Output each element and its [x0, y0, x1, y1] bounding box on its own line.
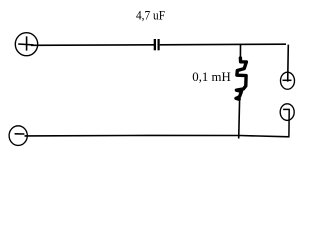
- wire bottom rail: [25, 135, 290, 136]
- input terminal + (top-left): [15, 33, 37, 56]
- capacitor 4,7uF: [154, 39, 160, 50]
- wire bottom-right vertical: [288, 109, 290, 136]
- svg-text:0,1 mH: 0,1 mH: [192, 70, 230, 84]
- inductor 0,1 mH (coil): [236, 58, 246, 99]
- wire inductor branch (from top wire down to coil): [239, 45, 241, 60]
- wire inductor to bottom rail: [238, 100, 241, 139]
- input terminal - (bottom-left): [9, 126, 27, 146]
- svg-text:4,7 uF: 4,7 uF: [136, 8, 165, 22]
- output terminal + (right): [281, 72, 295, 89]
- output terminal - (right): [280, 104, 294, 121]
- wire top-right drop: [287, 45, 290, 82]
- wire capacitor to top-right corner: [160, 43, 286, 46]
- wire top-left to capacitor: [31, 44, 154, 47]
